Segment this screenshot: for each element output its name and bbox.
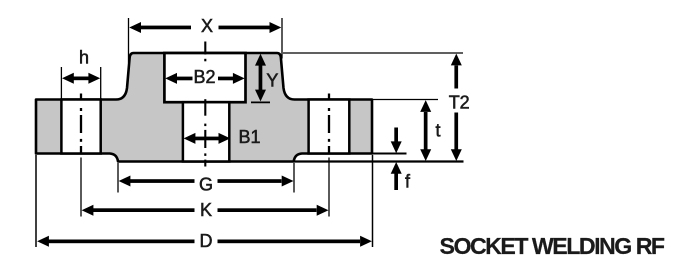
extension line socket bottom Y ref: [251, 101, 270, 103]
svg-text:f: f: [405, 172, 411, 192]
dimension t: [420, 100, 431, 161]
extension line X right: [281, 18, 283, 59]
extension line hub top right T2 ref: [283, 52, 463, 54]
dimension h: [62, 73, 100, 84]
dimension K: [82, 205, 329, 216]
svg-text:G: G: [199, 174, 213, 194]
centerline main bore: [204, 42, 206, 55]
dimension Y: [255, 54, 266, 102]
extension line G left: [117, 163, 119, 193]
extension line plate bottom right f ref: [373, 153, 407, 155]
extension line raised face bottom right: [294, 160, 464, 162]
extension line h right: [100, 67, 102, 99]
bolt hole right: [309, 100, 350, 154]
extension line G right: [293, 163, 295, 193]
dimension B2: [165, 73, 245, 84]
svg-text:K: K: [200, 200, 212, 220]
flange body: [36, 53, 372, 162]
extension line h left: [60, 67, 62, 99]
svg-text:X: X: [201, 16, 213, 36]
centerline right bolt hole: [328, 94, 330, 101]
svg-text:D: D: [200, 231, 213, 251]
bore B1 channel: [183, 102, 229, 161]
extension line X left: [128, 18, 130, 63]
dimension D: [37, 236, 372, 247]
centerline left bolt hole: [80, 94, 82, 101]
dimension X: [129, 22, 281, 33]
dimension B1: [184, 133, 231, 144]
dimension f: [391, 128, 402, 191]
svg-text:h: h: [79, 48, 89, 68]
bolt hole left: [61, 100, 100, 154]
socket recess B2: [164, 53, 245, 102]
svg-text:B1: B1: [239, 127, 261, 147]
svg-text:SOCKET WELDING RF: SOCKET WELDING RF: [440, 233, 665, 259]
extension line D right: [372, 155, 374, 247]
extension line plate top right t ref: [373, 99, 438, 101]
extension line D left: [35, 155, 37, 247]
svg-text:Y: Y: [266, 70, 278, 90]
dimension T2: [451, 54, 462, 161]
svg-text:T2: T2: [449, 92, 470, 112]
svg-text:t: t: [436, 121, 441, 141]
dimension G: [119, 176, 294, 187]
svg-text:B2: B2: [193, 67, 215, 87]
